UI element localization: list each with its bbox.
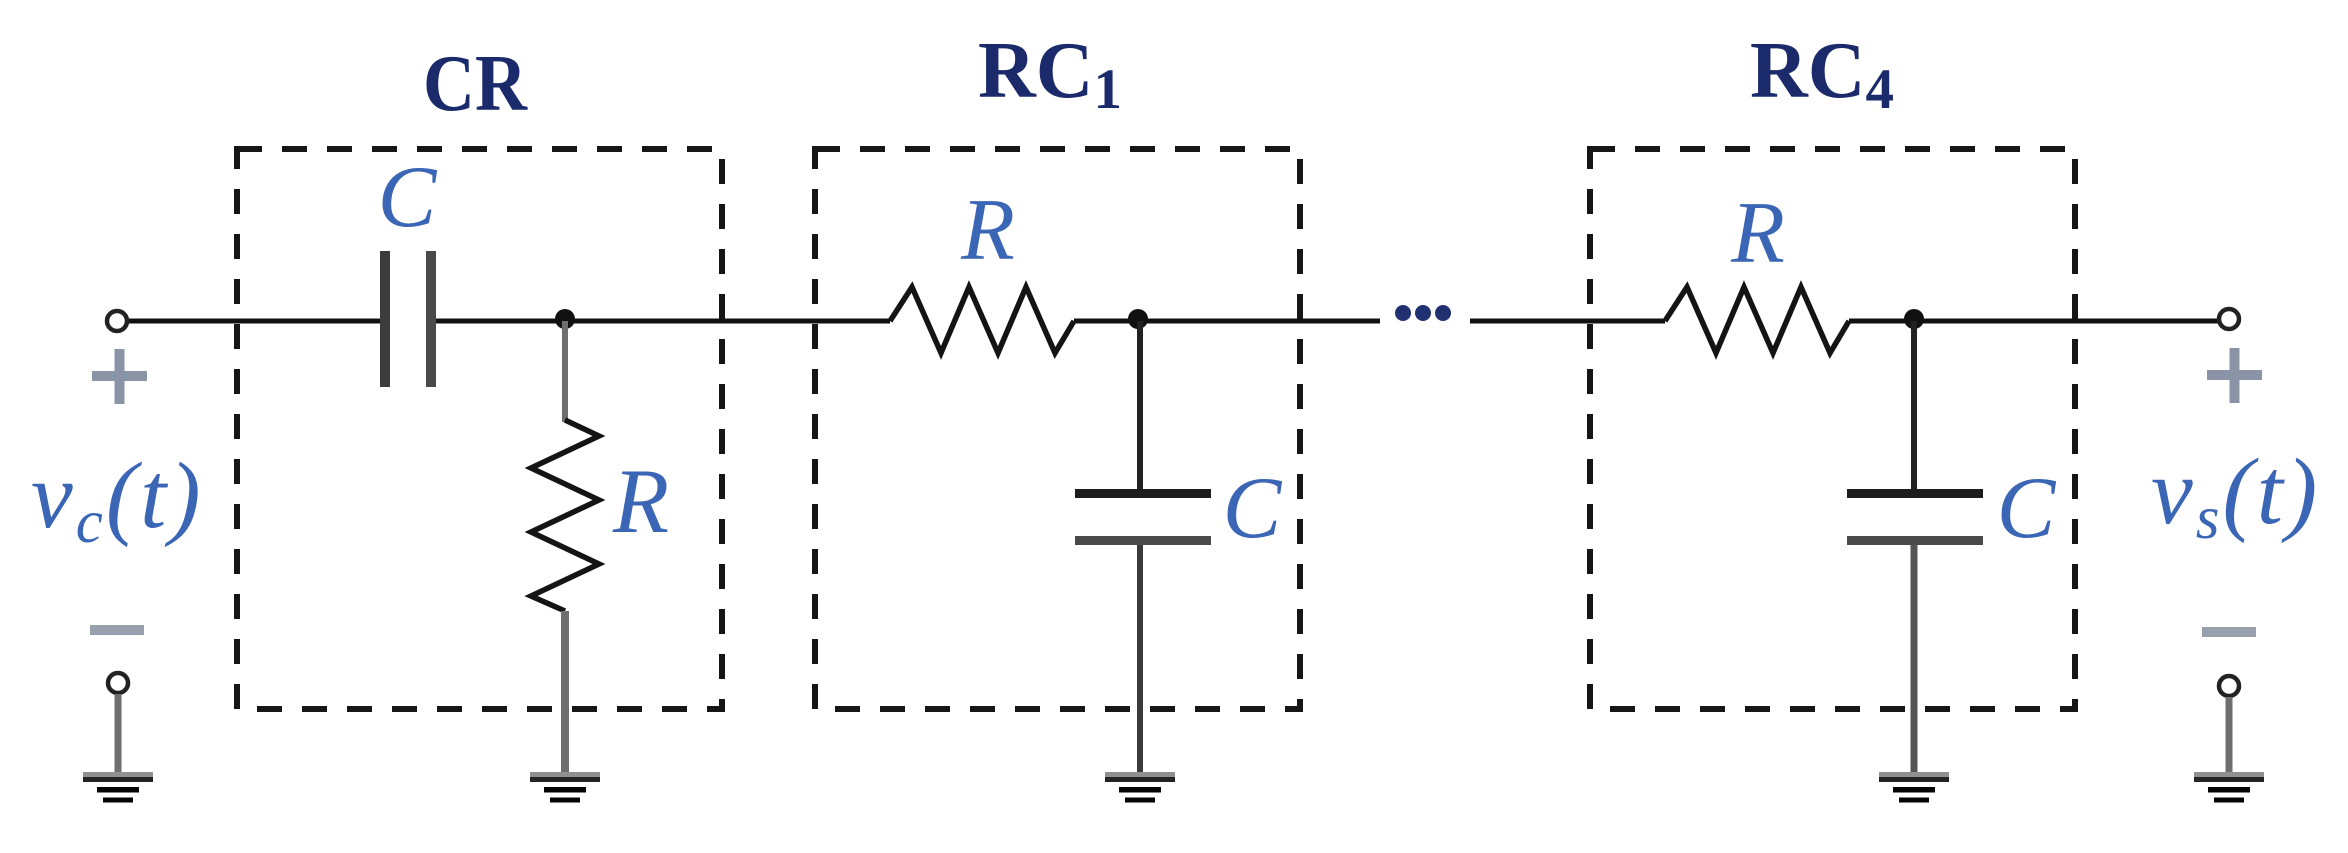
dashed box CR stage bbox=[237, 149, 722, 709]
label C (CR stage) bbox=[378, 149, 438, 246]
label CR bbox=[423, 40, 528, 128]
label R (RC1 stage) bbox=[960, 182, 1015, 279]
svg-text:R: R bbox=[1730, 185, 1785, 282]
ground (input) bbox=[83, 772, 153, 803]
label R (RC4 stage) bbox=[1730, 185, 1785, 282]
wire dots to RC4 bbox=[1470, 319, 1665, 324]
minus sign (input) bbox=[90, 625, 144, 635]
ellipsis dots bbox=[1395, 305, 1451, 321]
label v_c(t) bbox=[31, 444, 204, 556]
label RC1 bbox=[978, 27, 1122, 121]
svg-text:vc(t): vc(t) bbox=[31, 444, 204, 556]
ground (RC1 stage) bbox=[1105, 772, 1175, 803]
wire CR mid segment bbox=[436, 319, 890, 324]
wire capacitor to ground (RC4) bbox=[1911, 545, 1918, 777]
terminal output + bbox=[2219, 309, 2239, 329]
dashed box RC4 stage bbox=[1590, 149, 2075, 709]
svg-text:C: C bbox=[1997, 460, 2057, 557]
minus sign (output) bbox=[2202, 627, 2256, 637]
terminal output - bbox=[2219, 676, 2239, 696]
svg-text:CR: CR bbox=[423, 40, 528, 128]
label RC4 bbox=[1750, 27, 1894, 121]
node RC4 output bbox=[1904, 309, 1924, 329]
wire capacitor to ground (RC1) bbox=[1137, 545, 1143, 777]
wire RC1 resistor to node bbox=[1074, 319, 1380, 324]
wire RC4 resistor to output bbox=[1849, 319, 2218, 324]
node RC1 output bbox=[1128, 309, 1148, 329]
node CR output bbox=[555, 309, 575, 329]
terminal input + bbox=[107, 311, 127, 331]
wire output ground stem bbox=[2226, 697, 2233, 777]
plus sign (input) bbox=[92, 349, 147, 404]
plus sign (output) bbox=[2207, 348, 2262, 403]
resistor R (RC1 stage, series) bbox=[890, 287, 1074, 353]
wire resistor to ground (CR) bbox=[561, 611, 569, 777]
label C (RC4 stage) bbox=[1997, 460, 2057, 557]
capacitor C (CR stage, series) bbox=[380, 251, 436, 387]
ground (CR stage) bbox=[530, 772, 600, 803]
wire node to capacitor (RC1) bbox=[1137, 321, 1143, 489]
svg-text:vs(t): vs(t) bbox=[2151, 440, 2320, 552]
svg-text:R: R bbox=[960, 182, 1015, 279]
svg-text:C: C bbox=[378, 149, 438, 246]
wire input ground stem bbox=[115, 694, 122, 777]
wire node to resistor (CR) bbox=[562, 321, 568, 422]
dashed box RC1 stage bbox=[815, 149, 1300, 709]
label R (CR stage) bbox=[612, 450, 669, 552]
terminal input - bbox=[108, 673, 128, 693]
svg-text:R: R bbox=[612, 450, 669, 552]
ground (output) bbox=[2194, 772, 2264, 803]
wire node to capacitor (RC4) bbox=[1911, 321, 1917, 489]
label C (RC1 stage) bbox=[1223, 460, 1283, 557]
capacitor C (RC1 stage, shunt) bbox=[1075, 489, 1211, 545]
resistor R (RC4 stage, series) bbox=[1665, 287, 1849, 353]
wire input segment bbox=[129, 319, 382, 324]
capacitor C (RC4 stage, shunt) bbox=[1847, 489, 1983, 545]
resistor R (CR stage, shunt) bbox=[531, 420, 599, 611]
label v_s(t) bbox=[2151, 440, 2320, 552]
ground (RC4 stage) bbox=[1879, 772, 1949, 803]
svg-text:C: C bbox=[1223, 460, 1283, 557]
